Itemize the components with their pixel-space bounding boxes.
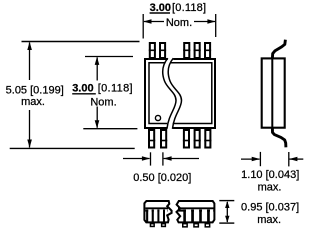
svg-text:Nom.: Nom. (166, 17, 192, 29)
svg-text:max.: max. (258, 182, 282, 194)
svg-text:3.00: 3.00 (150, 2, 171, 14)
svg-text:3.00: 3.00 (72, 83, 93, 95)
svg-text:Nom.: Nom. (90, 96, 116, 108)
svg-text:5.05 [0.199]: 5.05 [0.199] (6, 85, 64, 97)
svg-text:max.: max. (21, 96, 45, 108)
svg-text:0.95 [0.037]: 0.95 [0.037] (241, 202, 299, 214)
svg-text:[0.118]: [0.118] (172, 2, 206, 14)
svg-text:0.50 [0.020]: 0.50 [0.020] (133, 172, 191, 184)
svg-text:[0.118]: [0.118] (98, 83, 133, 95)
svg-text:1.10 [0.043]: 1.10 [0.043] (241, 169, 299, 181)
svg-text:max.: max. (257, 214, 281, 226)
